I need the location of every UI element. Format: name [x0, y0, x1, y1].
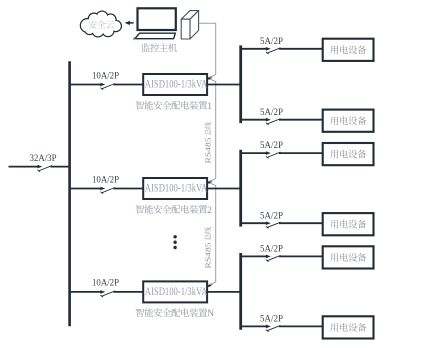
- svg-text:32A/3P: 32A/3P: [30, 153, 57, 163]
- svg-text:10A/2P: 10A/2P: [92, 278, 119, 288]
- ellipsis (more devices): [173, 235, 176, 249]
- wire output 1a: [241, 48, 268, 50]
- load box 用电设备 1b: [323, 110, 374, 132]
- arrowhead RS485 into device 1: [207, 77, 213, 80]
- wire U2 output: [207, 188, 241, 190]
- device UN AISD100-1/3kVA: [143, 281, 208, 302]
- svg-text:AISD100-1/3kVA: AISD100-1/3kVA: [145, 284, 208, 298]
- svg-text:5A/2P: 5A/2P: [260, 210, 283, 220]
- breaker 5A/2P: [266, 47, 271, 51]
- breaker 5A/2P: [266, 221, 271, 225]
- svg-text:RS485: RS485: [204, 137, 213, 163]
- label 监控主机: [141, 43, 177, 52]
- sub-bus N: [239, 253, 242, 330]
- arrowhead RS485 into device 2: [207, 181, 213, 184]
- load box 用电设备 2a: [323, 143, 374, 165]
- wire output Nb: [241, 325, 268, 327]
- device U2 AISD100-1/3kVA: [143, 178, 208, 199]
- breaker 32A/3P: [37, 165, 42, 169]
- svg-text:5A/2P: 5A/2P: [260, 140, 283, 150]
- cloud 安全云: [80, 11, 121, 37]
- wire output 1b: [241, 119, 268, 121]
- breaker 5A/2P: [266, 118, 271, 122]
- svg-text:RS485: RS485: [204, 242, 213, 268]
- wire UN output: [207, 291, 241, 293]
- device U1 AISD100-1/3kVA: [143, 74, 208, 95]
- wire output 2a: [241, 152, 268, 154]
- svg-text:5A/2P: 5A/2P: [260, 244, 283, 254]
- gateway module (communication unit): [181, 11, 198, 39]
- svg-text:AISD100-1/3kVA: AISD100-1/3kVA: [145, 77, 208, 91]
- wire branch 2: [70, 188, 103, 190]
- RS485 bus label 1: [204, 122, 213, 163]
- wire branch 1: [70, 84, 103, 86]
- label 智能安全配电装置N: [136, 308, 215, 319]
- wire branch N: [70, 291, 103, 293]
- load box 用电设备 Nb: [323, 316, 374, 338]
- svg-text:10A/2P: 10A/2P: [92, 70, 119, 80]
- breaker 5A/2P: [266, 325, 271, 329]
- label 智能安全配电装置2: [136, 205, 213, 216]
- wire output 2b: [241, 222, 268, 224]
- wire incoming feeder: [9, 166, 40, 168]
- sub-bus 2: [239, 150, 242, 227]
- RS485 bus label 2: [204, 227, 213, 268]
- svg-text:N: N: [207, 309, 214, 319]
- svg-text:5A/2P: 5A/2P: [260, 314, 283, 324]
- load box 用电设备 2b: [323, 213, 374, 235]
- label 智能安全配电装置1: [136, 101, 213, 112]
- arrowhead RS485 into device 3: [207, 284, 213, 287]
- svg-text:1: 1: [207, 102, 212, 112]
- svg-text:5A/2P: 5A/2P: [260, 36, 283, 46]
- main distribution bus: [68, 61, 71, 326]
- breaker 5A/2P: [266, 255, 271, 259]
- svg-text:2: 2: [207, 206, 212, 216]
- svg-text:AISD100-1/3kVA: AISD100-1/3kVA: [145, 181, 208, 195]
- breaker 10A/2P: [100, 83, 105, 87]
- monitoring host laptop: [133, 8, 176, 39]
- breaker 10A/2P: [100, 187, 105, 191]
- sub-bus 1: [239, 45, 242, 123]
- load box 用电设备 1a: [323, 39, 374, 61]
- wire U1 output: [207, 84, 241, 86]
- breaker 10A/2P: [100, 290, 105, 294]
- load box 用电设备 Na: [323, 246, 374, 268]
- svg-text:10A/2P: 10A/2P: [92, 174, 119, 184]
- wire RS485 bus from gateway: [199, 23, 216, 285]
- svg-text:5A/2P: 5A/2P: [260, 107, 283, 117]
- arrow laptop to cloud: [125, 21, 134, 25]
- breaker 5A/2P: [266, 151, 271, 155]
- wire output Na: [241, 255, 268, 257]
